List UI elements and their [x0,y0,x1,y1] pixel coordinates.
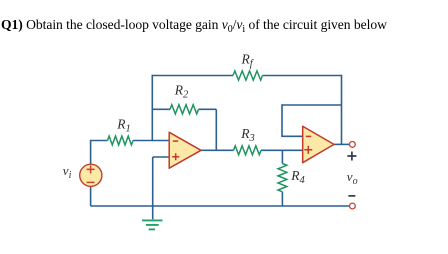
terminal + output [350,142,356,148]
wire R2 line right segment [199,108,217,110]
source Vi [80,164,102,186]
wire op-amp U2 feedback top segment [282,104,342,106]
wire U2 inverting input stub [281,135,303,137]
terminal - output [350,203,356,209]
svg-text:R4: R4 [290,168,305,186]
wire R4 top stub [281,150,283,163]
wire source bottom stub [90,186,92,206]
resistor R1 [108,136,134,145]
wire Rf top line right segment [263,75,342,77]
plus polarity marker [347,152,356,161]
svg-text:Rf: Rf [241,52,255,70]
wire R2 right vertical to U1 output [215,109,217,150]
wire op-amp U2 feedback vertical [281,104,283,136]
wire U1 noninverting input stub [153,156,170,158]
wire U2 output to terminal [334,143,350,145]
wire U1 noninverting vertical to ground [152,157,154,219]
wire source top stub [91,141,108,164]
op-amp U1 [169,132,201,168]
svg-text:R1: R1 [116,117,131,135]
svg-text:vo: vo [347,169,358,187]
ground [142,220,163,229]
resistor R2 [170,105,199,114]
wire R1 to U1 inverting input [133,140,170,142]
op-amp U2 [303,126,334,162]
resistor R3 [234,146,262,155]
title text [1,17,387,33]
wire R3 to U2 noninverting input [261,149,303,151]
wire right vertical (Rf/output node) [341,75,343,145]
svg-text:R2: R2 [174,82,189,100]
wire R2 line left segment [152,108,170,110]
wire bottom rail [91,205,350,207]
resistor R4 [278,164,287,192]
wire Rf top line left segment [152,75,233,77]
minus polarity marker [348,195,355,197]
resistor Rf [233,71,263,80]
wire U1 output segment [201,149,234,151]
wire R4 bottom stub [281,192,283,206]
svg-text:R3: R3 [240,126,255,144]
svg-text:vi: vi [63,163,72,181]
wire node A left vertical [151,75,153,141]
